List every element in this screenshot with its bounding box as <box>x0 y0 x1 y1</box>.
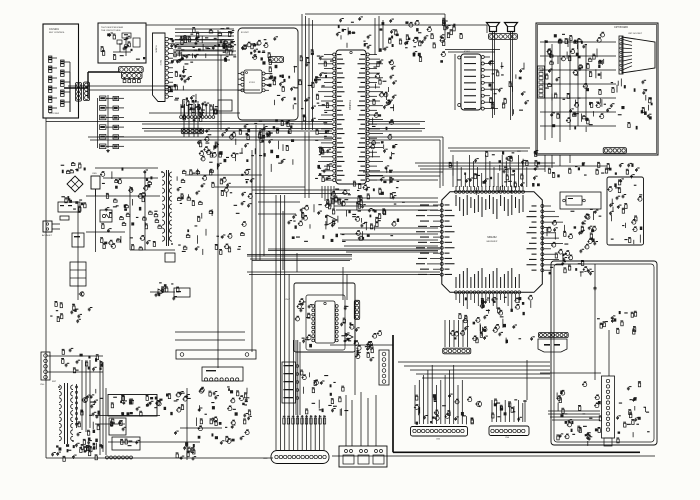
svg-text:KEY CONTROL: KEY CONTROL <box>49 32 65 34</box>
wire <box>295 340 297 415</box>
wire <box>367 398 369 446</box>
sync processor box G <box>285 283 355 352</box>
wire <box>418 165 550 167</box>
wire <box>552 419 600 421</box>
wire <box>510 31 512 120</box>
power components right of bridge <box>100 167 162 250</box>
wire <box>259 128 261 260</box>
wire <box>86 195 160 197</box>
wire <box>304 132 306 198</box>
svg-text:M61262: M61262 <box>487 235 497 239</box>
wire <box>88 71 120 73</box>
svg-text:CN8: CN8 <box>263 458 268 460</box>
svg-text:IC201: IC201 <box>249 82 256 84</box>
primary bottom components <box>50 301 92 323</box>
fuse F801 <box>60 216 69 220</box>
component cluster x370 top <box>367 19 399 52</box>
resistor row above CN8 <box>283 416 326 424</box>
wire <box>368 121 425 123</box>
connector small row <box>443 348 471 354</box>
components right of IC301 <box>370 60 398 184</box>
wire <box>64 87 88 89</box>
wire <box>247 271 440 273</box>
DIP IC IC401 <box>312 301 338 343</box>
wire <box>368 128 425 130</box>
svg-text:CRT-SOCKET: CRT-SOCKET <box>628 33 643 35</box>
wire <box>105 388 107 455</box>
wire <box>89 89 260 91</box>
components below IF box <box>244 119 294 137</box>
wire <box>375 395 377 446</box>
wire <box>363 171 443 173</box>
wire <box>301 14 303 130</box>
wire <box>175 28 234 30</box>
small box below V <box>109 418 126 435</box>
flyback transformer T902 <box>52 381 78 444</box>
wire <box>393 451 640 453</box>
wire <box>268 248 440 250</box>
wire <box>99 360 101 455</box>
wire <box>102 362 104 452</box>
wire <box>360 392 362 446</box>
wire <box>551 155 553 168</box>
wire <box>142 123 332 125</box>
wire <box>367 175 440 177</box>
svg-text:TECC: TECC <box>159 60 161 66</box>
connector CN-K2 <box>84 82 90 101</box>
wire <box>368 139 440 141</box>
wire <box>445 49 500 51</box>
vertical output box <box>108 395 157 417</box>
main filter cap C805 <box>91 173 100 196</box>
flyback bottom components <box>51 444 97 461</box>
wire <box>130 249 175 251</box>
connector 3p <box>269 57 284 63</box>
components left of CN4 <box>354 327 382 361</box>
component cluster mid <box>197 128 249 170</box>
wire <box>550 416 600 418</box>
wire <box>444 320 446 347</box>
wire <box>252 189 350 191</box>
wire <box>524 400 526 422</box>
V components right <box>155 391 191 415</box>
components above IC1 <box>449 150 540 195</box>
power board terminal band <box>175 332 256 359</box>
wire <box>95 423 125 425</box>
flyback right components <box>75 389 104 453</box>
components above bridge <box>61 162 86 174</box>
vertical connector CN-F <box>602 376 615 446</box>
components below IC301 <box>331 185 379 239</box>
wire <box>86 231 125 233</box>
connector board CN-S201 <box>43 24 79 118</box>
wire <box>492 31 494 118</box>
wire <box>548 413 600 415</box>
components right top <box>548 162 640 179</box>
main connector CN8 <box>263 451 329 464</box>
wire <box>47 371 103 373</box>
small box deflection left <box>174 288 190 297</box>
wire <box>559 155 561 166</box>
wire <box>415 162 555 164</box>
op-amp error amp <box>327 215 337 225</box>
wire <box>47 355 103 357</box>
wire <box>103 177 158 179</box>
component small cluster at 158 288 <box>155 282 179 300</box>
wire <box>81 360 83 430</box>
SMPS transformer T801 <box>159 170 175 246</box>
wire <box>585 44 587 120</box>
wire <box>368 123 420 125</box>
snubber diode D805 <box>150 253 175 295</box>
wire <box>296 253 298 272</box>
wire <box>183 101 185 137</box>
wire <box>95 415 160 417</box>
wire <box>450 150 528 152</box>
wire <box>251 150 253 352</box>
degauss posistor box <box>98 23 146 63</box>
wire <box>420 168 545 170</box>
components left of H-drive <box>174 431 196 461</box>
wire <box>370 179 438 181</box>
wire <box>491 400 493 422</box>
V-out box components <box>111 395 158 416</box>
video chroma IC IC301 <box>318 50 383 184</box>
degauss box components <box>101 33 146 60</box>
wire <box>551 44 553 138</box>
wire <box>176 54 236 56</box>
wire <box>494 31 496 115</box>
wire <box>448 147 530 149</box>
wire <box>255 193 350 195</box>
wire <box>146 24 487 26</box>
bottom-left connector row <box>106 456 133 459</box>
deflection yoke box <box>339 446 387 467</box>
tuner components <box>168 37 199 106</box>
wire <box>321 186 323 198</box>
wire <box>486 25 488 33</box>
vertical connector small <box>354 300 359 319</box>
wire <box>88 136 332 138</box>
wire <box>526 360 528 400</box>
box F right cluster <box>616 381 649 443</box>
wire <box>68 85 175 87</box>
wire <box>569 38 571 130</box>
wire <box>220 55 222 130</box>
wire <box>247 255 352 257</box>
wire <box>250 258 352 260</box>
wire <box>46 457 273 459</box>
wire <box>414 385 416 424</box>
wire <box>263 124 265 256</box>
wire <box>398 361 550 363</box>
wire <box>332 455 655 457</box>
box F mid cluster <box>597 311 637 334</box>
svg-text:THE CIRCUIT SIDE: THE CIRCUIT SIDE <box>101 30 121 32</box>
CRT board lower cluster <box>606 79 652 130</box>
wire <box>392 335 394 452</box>
wire <box>594 264 596 380</box>
svg-text:TH-POSISTOR 8OHM: TH-POSISTOR 8OHM <box>101 27 123 29</box>
component cluster below tuner <box>181 95 219 122</box>
transistor Q5 <box>476 401 481 406</box>
wire <box>577 40 579 126</box>
wire <box>173 39 230 41</box>
components above CN6 <box>491 399 527 422</box>
IF module box <box>238 28 298 120</box>
svg-text:TDA8361: TDA8361 <box>348 100 351 111</box>
wire <box>95 167 158 169</box>
wire <box>258 201 300 203</box>
power sub-board box F outline <box>551 261 657 445</box>
AC inlet plug <box>42 221 60 237</box>
wire <box>368 136 443 138</box>
components x305 column <box>299 49 318 122</box>
optocoupler PC801 <box>100 210 112 222</box>
sub board box E <box>607 177 644 245</box>
wire <box>374 18 376 55</box>
CRT board outline <box>536 23 658 155</box>
connector CN-C1 <box>538 66 545 98</box>
wire <box>308 132 310 198</box>
wire <box>46 121 332 123</box>
wire <box>346 274 348 300</box>
IF box components top <box>241 36 278 64</box>
crystal X1 box <box>560 192 601 209</box>
wire <box>351 400 353 446</box>
box G right components <box>340 306 356 343</box>
components right of jack board <box>300 370 348 416</box>
svg-text:CRT BOARD: CRT BOARD <box>614 26 628 29</box>
connector CN-C2 <box>603 148 626 154</box>
tuner TU101 <box>153 33 174 102</box>
components above IC301 <box>336 16 368 47</box>
wire <box>299 342 301 415</box>
components left of IC301 <box>315 56 334 182</box>
wire <box>512 31 514 116</box>
components below IC1 <box>450 295 535 344</box>
wire <box>217 30 219 368</box>
wire <box>215 186 305 188</box>
svg-text:CN-V: CN-V <box>285 299 291 301</box>
svg-text:IF UNIT: IF UNIT <box>241 32 249 34</box>
voltage regulator cluster <box>288 198 351 242</box>
svg-text:FBT: FBT <box>52 381 57 383</box>
H-drive IC box <box>202 367 243 381</box>
svg-text:M61262FP: M61262FP <box>487 241 498 243</box>
wire <box>544 155 546 172</box>
AC plug / CRT neck connector <box>538 332 568 352</box>
small box below V 2 <box>112 437 140 450</box>
connector CN5 <box>411 427 468 441</box>
line filter LF801 <box>58 202 80 212</box>
wire <box>268 250 438 252</box>
wire <box>439 140 441 188</box>
wire <box>540 41 616 43</box>
wire <box>185 174 262 176</box>
CRT socket V901 <box>619 33 655 74</box>
wire <box>249 274 440 276</box>
IF box components right <box>267 65 298 110</box>
connector CN-D <box>119 67 144 83</box>
diode bridge D801 <box>67 176 83 192</box>
H-out transistor Q902 <box>83 398 88 403</box>
flyback bottom dense cluster <box>81 438 98 456</box>
secondary rectifier cluster <box>177 169 255 255</box>
microcontroller/jungle IC IC1 M61262 <box>416 186 563 309</box>
wire <box>559 40 561 142</box>
wire <box>87 72 89 98</box>
components left of IC1 bus <box>352 178 405 240</box>
audio amp IC601 <box>458 51 498 110</box>
AV jack board <box>282 362 299 403</box>
SAW filter Z101 <box>218 100 232 111</box>
IF components cluster <box>177 27 236 62</box>
svg-text:CN-S201: CN-S201 <box>49 28 60 31</box>
wire <box>540 372 601 374</box>
op-amp triangle box G <box>345 333 353 341</box>
wire <box>258 213 296 215</box>
wire <box>330 197 438 199</box>
switching regulator chain <box>70 202 86 300</box>
audio components right <box>488 60 529 114</box>
wire <box>255 125 257 260</box>
connector CN-IF <box>181 128 203 133</box>
components below bridge <box>61 196 86 213</box>
box F bottom cluster <box>556 381 601 446</box>
wire <box>345 395 347 446</box>
audio components left <box>440 18 463 46</box>
speaker SP2 <box>505 23 518 32</box>
wire <box>540 165 607 167</box>
svg-text:AC-INLET: AC-INLET <box>42 234 53 237</box>
wire <box>90 139 332 141</box>
components right of IC1 <box>546 209 601 277</box>
wire <box>442 137 444 186</box>
wire <box>544 40 546 140</box>
connector CN6 <box>489 426 529 439</box>
wire <box>129 186 131 250</box>
connector CN-L <box>40 352 50 386</box>
connector pins row <box>180 104 215 118</box>
wire <box>142 128 332 130</box>
wire <box>186 388 188 460</box>
box G components <box>295 298 313 347</box>
wire <box>45 118 47 458</box>
box E components <box>607 178 642 244</box>
wire <box>548 410 600 412</box>
sound input cluster Q201 <box>399 20 448 63</box>
components above flyback <box>61 348 103 373</box>
wire <box>444 14 446 40</box>
wire <box>144 172 146 250</box>
H-drive components <box>197 386 252 444</box>
components above CN5 <box>414 394 474 425</box>
wire <box>180 427 222 429</box>
wire <box>608 330 610 376</box>
speaker connector CN-SP <box>489 34 518 40</box>
wire <box>108 441 200 443</box>
wire <box>569 155 571 163</box>
wire <box>368 130 422 132</box>
connector CN-K1 <box>76 83 82 102</box>
wire <box>282 211 284 270</box>
wire <box>454 54 456 110</box>
wire <box>330 344 393 346</box>
vertical connector CN4 <box>379 350 389 385</box>
svg-text:SW1 SW2: SW1 SW2 <box>49 113 60 115</box>
wire <box>378 16 380 52</box>
wire <box>144 130 332 132</box>
wire <box>448 51 495 53</box>
component cluster mid2 <box>251 126 294 172</box>
speaker SP1 <box>487 23 500 32</box>
wire <box>97 98 99 148</box>
op-amp IC U201 <box>238 70 269 93</box>
wire <box>95 189 97 252</box>
CRT drive transistors cluster <box>545 32 606 132</box>
wire <box>85 362 87 432</box>
wire <box>252 260 350 262</box>
wire <box>149 112 240 114</box>
wire <box>382 20 384 50</box>
wire <box>452 155 454 187</box>
wire <box>275 195 277 450</box>
wire <box>342 267 344 300</box>
wire <box>305 13 445 15</box>
capacitor C913 <box>594 286 596 288</box>
wire <box>176 50 236 52</box>
wire <box>89 360 91 428</box>
wire <box>247 254 352 256</box>
diode ladder D201-D206 <box>100 95 125 153</box>
svg-text:TUNER: TUNER <box>155 45 157 53</box>
wire <box>354 330 356 395</box>
